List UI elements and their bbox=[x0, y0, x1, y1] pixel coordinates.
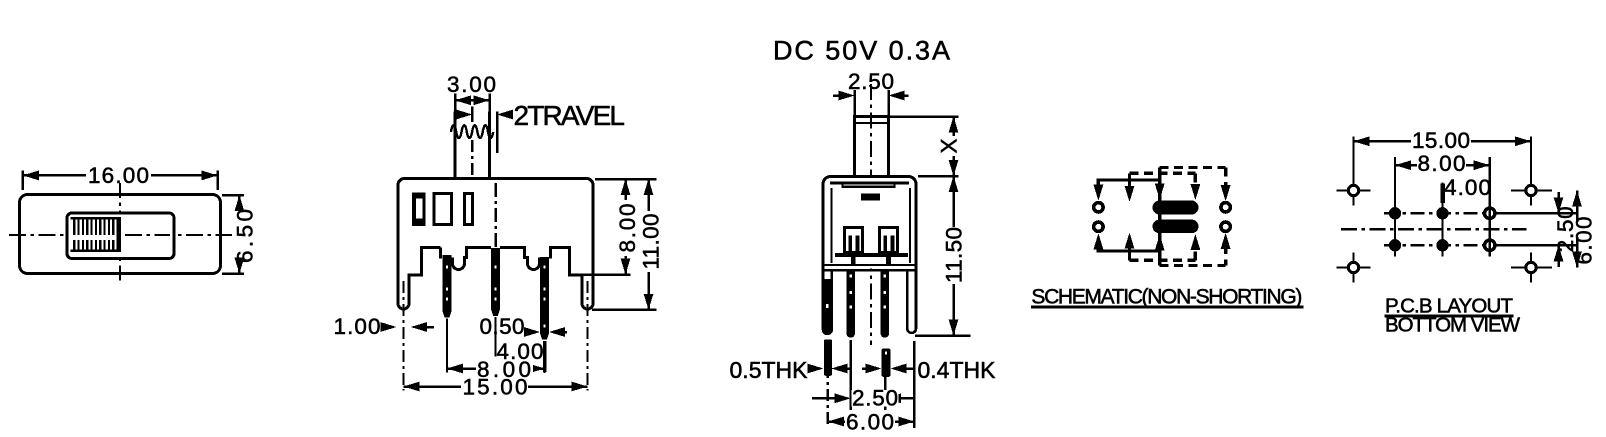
schematic inner slider frame dashed bbox=[1130, 173, 1201, 260]
pcb pad column2 row2 bbox=[1436, 239, 1448, 251]
svg-text:15.00: 15.00 bbox=[463, 375, 528, 400]
top view knob bbox=[67, 213, 174, 259]
pcb labels bbox=[1385, 295, 1521, 337]
svg-text:6.50: 6.50 bbox=[233, 209, 258, 263]
side body shell bbox=[823, 177, 916, 334]
front pin 1 bbox=[443, 255, 452, 317]
schematic terminal lower-right bbox=[1221, 222, 1230, 231]
pcb mount hole top-left bbox=[1337, 176, 1371, 206]
lug extension lines bbox=[404, 281, 588, 391]
svg-text:X: X bbox=[937, 138, 962, 153]
pcb pad column1 row2 bbox=[1389, 239, 1401, 251]
dimension 6.00 bottom bbox=[828, 410, 914, 435]
bottom extension lines side view bbox=[828, 340, 915, 428]
front slot 3 bbox=[464, 193, 472, 224]
dimension 0.5THK bbox=[730, 357, 850, 383]
side pin B bbox=[881, 271, 890, 338]
pcb pad column2 row1 bbox=[1436, 207, 1448, 219]
schematic pole wire upper bbox=[1094, 180, 1165, 202]
dimension 16.00 bbox=[23, 163, 218, 190]
top view horizontal center line bbox=[9, 234, 232, 236]
dimension 1.00 bbox=[334, 314, 435, 339]
dimension 8.00 right bbox=[615, 179, 640, 275]
dimension 0.4THK bbox=[862, 357, 996, 383]
pcb dimension 4.00 bbox=[1443, 175, 1491, 203]
schematic terminal upper-right bbox=[1221, 203, 1230, 212]
pin B lower bar bbox=[882, 349, 891, 377]
svg-text:1.00: 1.00 bbox=[334, 314, 381, 339]
front view body bbox=[398, 178, 593, 311]
pcb row lines bbox=[1384, 213, 1577, 245]
dimension 3.00 bbox=[447, 72, 496, 112]
pcb pad column3 row2 bbox=[1485, 240, 1495, 250]
svg-text:15.00: 15.00 bbox=[1412, 128, 1470, 153]
pin extension lines bbox=[447, 317, 545, 373]
side center line bbox=[870, 84, 872, 345]
dimension 8.00 bottom bbox=[447, 357, 545, 382]
bracket solid lower section bbox=[823, 279, 834, 334]
schematic common contact bar 2 bbox=[1153, 220, 1199, 234]
side pin A bbox=[846, 271, 855, 338]
schematic outer slider frame dashed bbox=[1160, 168, 1231, 266]
svg-text:8.00: 8.00 bbox=[615, 204, 640, 253]
top view body bbox=[20, 195, 221, 274]
dimension 0.50 bbox=[480, 314, 568, 339]
front slot 1 bbox=[412, 192, 426, 226]
schematic pole wire lower bbox=[1094, 233, 1165, 252]
svg-text:0.50: 0.50 bbox=[480, 314, 525, 339]
dimension 11.50 bbox=[915, 176, 971, 336]
dimension 2 travel bbox=[455, 100, 625, 131]
schematic common contact bar 1 bbox=[1153, 201, 1199, 215]
schematic terminal upper-left bbox=[1094, 203, 1103, 212]
svg-text:16.00: 16.00 bbox=[88, 163, 149, 188]
front pin 3 bbox=[540, 257, 549, 339]
svg-text:2.50: 2.50 bbox=[852, 386, 898, 411]
dimension 2.50 bottom bbox=[812, 386, 914, 411]
svg-text:SCHEMATIC(NON-SHORTING): SCHEMATIC(NON-SHORTING) bbox=[1031, 286, 1302, 309]
front view knob bbox=[451, 107, 497, 178]
schematic label bbox=[1031, 286, 1304, 309]
dimension X bbox=[890, 117, 962, 177]
pcb mount hole bottom-left bbox=[1337, 253, 1371, 283]
pcb pad column1 row1 bbox=[1389, 207, 1401, 219]
dimension 11.00 right bbox=[639, 179, 664, 310]
svg-text:11.00: 11.00 bbox=[639, 214, 664, 270]
top view vertical center line bbox=[119, 183, 121, 285]
front center line bbox=[494, 183, 497, 248]
front slot 2 bbox=[434, 193, 452, 224]
side contact left bbox=[845, 228, 863, 253]
pcb column lines bbox=[1395, 157, 1490, 257]
pcb dimension 8.00 bbox=[1395, 151, 1490, 176]
svg-text:11.50: 11.50 bbox=[942, 227, 967, 283]
svg-text:2TRAVEL: 2TRAVEL bbox=[514, 100, 626, 131]
svg-text:4.00: 4.00 bbox=[1444, 175, 1491, 200]
pcb dimension 6.00 bbox=[1572, 191, 1597, 268]
svg-text:0.4THK: 0.4THK bbox=[918, 357, 997, 383]
dimension 6.50 bbox=[222, 195, 258, 273]
rating text DC 50V 0.3A bbox=[773, 36, 950, 66]
pcb dimension 15.00 bbox=[1354, 128, 1532, 183]
svg-text:DC 50V 0.3A: DC 50V 0.3A bbox=[773, 36, 950, 66]
side contact right bbox=[880, 228, 898, 253]
schematic terminal lower-left bbox=[1094, 222, 1103, 231]
svg-text:6.00: 6.00 bbox=[846, 410, 894, 435]
svg-text:BOTTOM VIEW: BOTTOM VIEW bbox=[1385, 314, 1521, 337]
svg-text:8.00: 8.00 bbox=[1418, 151, 1466, 176]
svg-text:6.00: 6.00 bbox=[1572, 217, 1597, 265]
bracket lower bar bbox=[824, 340, 832, 376]
svg-text:3.00: 3.00 bbox=[447, 72, 496, 97]
side knob bbox=[853, 90, 890, 187]
pcb mount hole bottom-right bbox=[1511, 253, 1552, 283]
front pin 2 bbox=[491, 248, 500, 316]
dimension 2.50 top bbox=[833, 69, 909, 100]
pcb dimension 2.50 bbox=[1553, 192, 1578, 267]
pcb center line bbox=[1341, 228, 1527, 230]
svg-text:0.5THK: 0.5THK bbox=[730, 357, 809, 383]
pcb pad column3 row1 bbox=[1485, 208, 1495, 218]
dimension 15.00 bottom bbox=[404, 375, 588, 400]
knob serration bbox=[71, 217, 121, 252]
pcb mount hole top-right bbox=[1511, 176, 1552, 206]
dimension 4.00 bbox=[497, 339, 545, 372]
right extension lines bbox=[570, 179, 657, 310]
